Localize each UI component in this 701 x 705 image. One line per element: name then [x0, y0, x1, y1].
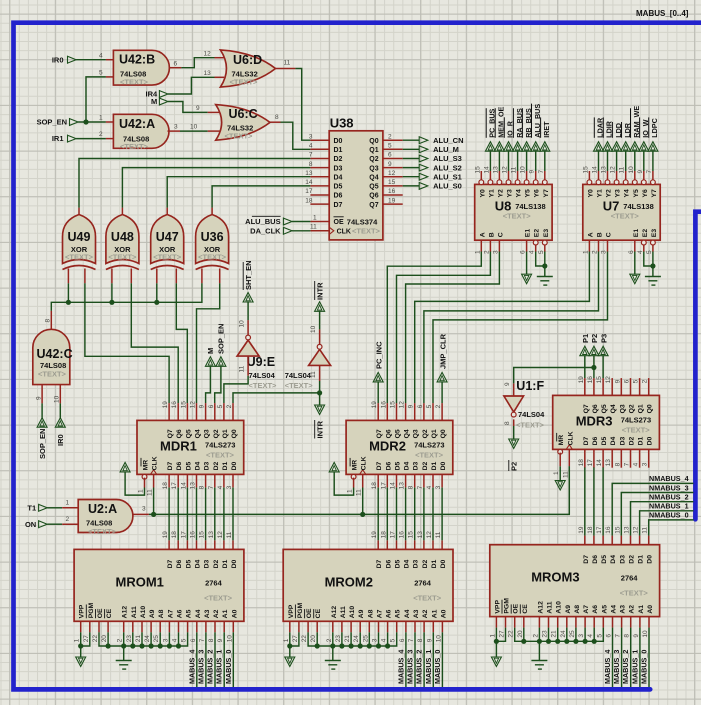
- pin D6 MDR2: [386, 474, 388, 487]
- wire: [223, 488, 225, 541]
- svg-text:MABUS_2: MABUS_2: [621, 650, 630, 684]
- pin CE MROM3: [523, 617, 525, 628]
- terminal IR0: [68, 56, 77, 64]
- terminal T1: [39, 504, 48, 512]
- svg-text:18: 18: [162, 482, 169, 490]
- pin Y1 U8: [488, 180, 493, 185]
- wire: [67, 283, 69, 302]
- svg-text:15: 15: [596, 376, 603, 384]
- wire ground rail MROM3: [515, 628, 604, 642]
- pin A6 MROM2: [387, 621, 389, 632]
- pin 11 output U6:D: [276, 68, 296, 70]
- svg-text:A3: A3: [204, 609, 211, 618]
- wire: [76, 138, 106, 140]
- svg-text:Q6: Q6: [385, 429, 392, 438]
- svg-text:MR: MR: [352, 460, 359, 471]
- svg-text:NMABUS_1: NMABUS_1: [649, 502, 689, 511]
- junction: [121, 643, 126, 648]
- svg-text:D5: D5: [601, 436, 608, 445]
- junction: [130, 643, 135, 648]
- svg-text:Q5: Q5: [369, 184, 378, 191]
- svg-text:13: 13: [399, 482, 406, 490]
- junction: [564, 639, 569, 644]
- svg-text:19: 19: [371, 531, 378, 539]
- svg-text:D6: D6: [176, 461, 183, 470]
- svg-text:<TEXT>: <TEXT>: [230, 78, 259, 87]
- pin A6 MROM1: [178, 621, 180, 632]
- pin A2 MROM3: [630, 617, 632, 628]
- wire NMABUS_4: [612, 483, 693, 535]
- pin MR MDR3: [558, 449, 563, 454]
- svg-text:7: 7: [417, 485, 424, 489]
- svg-text:15: 15: [390, 401, 397, 409]
- terminal SHT_EN: [243, 293, 253, 303]
- wire MABUS_1: [432, 632, 434, 687]
- pin D0 MDR1: [232, 474, 234, 487]
- pin Y3 U7: [614, 180, 619, 185]
- svg-text:6: 6: [520, 250, 527, 254]
- output pin U48: [121, 208, 123, 215]
- svg-text:9: 9: [529, 170, 536, 174]
- svg-text:3: 3: [142, 506, 146, 513]
- svg-text:A12: A12: [122, 606, 129, 619]
- svg-text:4: 4: [529, 250, 536, 254]
- wire ground rail MROM1: [99, 632, 188, 646]
- svg-text:6: 6: [399, 638, 406, 642]
- svg-text:13: 13: [417, 531, 424, 539]
- pin 10 output U9:F: [319, 329, 321, 344]
- svg-text:D4: D4: [404, 461, 411, 470]
- junction: [591, 365, 596, 370]
- pin PGM MROM1: [89, 621, 91, 632]
- pin D7 MDR3: [584, 449, 586, 467]
- register MDR1 74LS273: [137, 420, 244, 474]
- pin 5 U42:B: [106, 76, 114, 78]
- pin D5 U38: [310, 185, 329, 187]
- svg-text:A11: A11: [547, 601, 554, 613]
- wire MABUS_4: [612, 628, 614, 687]
- junction: [106, 643, 111, 648]
- svg-text:NMABUS_0: NMABUS_0: [649, 511, 689, 520]
- svg-text:D4: D4: [195, 559, 202, 568]
- wire: [386, 488, 388, 541]
- wire: [232, 488, 234, 541]
- svg-text:INTR: INTR: [315, 282, 324, 300]
- svg-text:7: 7: [624, 462, 631, 466]
- svg-text:6: 6: [606, 634, 613, 638]
- svg-text:<TEXT>: <TEXT>: [88, 527, 117, 536]
- svg-text:9: 9: [196, 105, 200, 112]
- svg-text:A8: A8: [574, 605, 581, 614]
- wire Y2 U7: [607, 151, 609, 171]
- pin D6 MDR1: [177, 474, 179, 487]
- svg-text:A12: A12: [331, 606, 338, 619]
- svg-text:7: 7: [646, 170, 653, 174]
- pin D7 MDR2: [377, 474, 379, 487]
- svg-text:D5: D5: [334, 184, 343, 191]
- junction: [83, 119, 88, 124]
- svg-text:18: 18: [171, 531, 178, 539]
- svg-text:Y0: Y0: [587, 189, 594, 198]
- svg-text:11: 11: [562, 471, 569, 478]
- pin A10 MROM1: [141, 621, 143, 632]
- svg-text:11: 11: [239, 365, 246, 372]
- svg-text:SOP_EN: SOP_EN: [217, 324, 226, 354]
- pin D5 MDR2: [396, 474, 398, 487]
- svg-text:A0: A0: [231, 609, 238, 618]
- svg-text:3: 3: [372, 638, 379, 642]
- svg-text:D0: D0: [231, 461, 238, 470]
- svg-text:1: 1: [582, 250, 589, 254]
- pin D2 MDR2: [423, 474, 425, 487]
- svg-text:D7: D7: [167, 559, 174, 568]
- pin11 CLK MDR1: [153, 474, 155, 487]
- pin Q5 MDR1: [186, 403, 188, 420]
- pin1 MR MDR1: [144, 478, 146, 488]
- svg-text:15: 15: [614, 526, 621, 534]
- svg-text:U49: U49: [68, 230, 91, 244]
- pin CE MROM1: [107, 621, 109, 632]
- svg-text:3: 3: [435, 485, 442, 489]
- svg-text:23: 23: [126, 635, 133, 643]
- pin 6 output U42:B: [169, 67, 182, 69]
- svg-text:6: 6: [388, 152, 392, 159]
- junction: [537, 639, 542, 644]
- pin MR MDR1: [142, 474, 147, 479]
- pin Y3 U8: [506, 180, 511, 185]
- pin Y7 U8: [542, 180, 547, 185]
- svg-text:Y6: Y6: [534, 189, 541, 198]
- wire U7 C to MDR2 Q1: [433, 252, 608, 404]
- pin Q7 MDR2: [377, 403, 379, 420]
- svg-text:A9: A9: [358, 609, 365, 618]
- pin 9 input U1:F: [513, 383, 515, 396]
- pin Q7 U38: [383, 203, 403, 205]
- svg-text:A6: A6: [386, 609, 393, 618]
- svg-text:IR0: IR0: [52, 55, 64, 64]
- svg-text:5: 5: [596, 634, 603, 638]
- svg-text:MABUS_0: MABUS_0: [433, 650, 442, 684]
- pin D2 MROM2: [423, 540, 425, 549]
- svg-text:18: 18: [371, 482, 378, 490]
- pin A4 MROM1: [196, 621, 198, 632]
- svg-text:D1: D1: [222, 461, 229, 470]
- wire MR MDR2 to terminal: [334, 472, 353, 495]
- svg-text:1: 1: [283, 638, 290, 642]
- pin1 MR MDR3: [559, 453, 561, 467]
- svg-text:A7: A7: [167, 609, 174, 618]
- junction: [109, 300, 114, 305]
- wire: [159, 632, 161, 646]
- terminal RB_BUS: [522, 142, 532, 152]
- svg-text:IR1: IR1: [52, 134, 64, 143]
- svg-text:D3: D3: [334, 165, 343, 172]
- eprom MROM2 2764: [283, 549, 453, 621]
- wire: [168, 488, 170, 541]
- svg-text:15: 15: [582, 166, 589, 174]
- svg-text:14: 14: [180, 482, 187, 490]
- pin 10 U42:C: [59, 385, 61, 404]
- svg-text:MABUS_4: MABUS_4: [396, 650, 405, 684]
- svg-text:D1: D1: [431, 559, 438, 568]
- svg-text:A12: A12: [537, 601, 544, 614]
- svg-text:9: 9: [217, 638, 224, 642]
- svg-text:13: 13: [305, 170, 313, 177]
- junction: [139, 643, 144, 648]
- svg-text:A9: A9: [565, 605, 572, 614]
- wire: [196, 488, 198, 541]
- svg-text:3: 3: [162, 638, 169, 642]
- pin A U8: [480, 240, 482, 251]
- pin Q4 MDR1: [196, 403, 198, 420]
- junction: [358, 643, 363, 648]
- svg-text:NMABUS_3: NMABUS_3: [649, 483, 689, 492]
- svg-text:A5: A5: [186, 609, 193, 618]
- svg-text:MABUS_4: MABUS_4: [187, 650, 196, 684]
- svg-text:14: 14: [592, 166, 599, 174]
- pin Q0 MDR2: [441, 403, 443, 420]
- svg-text:D2: D2: [213, 461, 220, 470]
- svg-text:11: 11: [284, 60, 291, 67]
- pin Q1 U38: [383, 148, 403, 150]
- pin D3 MDR1: [205, 474, 207, 487]
- wire: [332, 632, 334, 646]
- svg-text:D6: D6: [592, 436, 599, 445]
- input pins U47: [156, 269, 158, 284]
- svg-text:Q7: Q7: [167, 429, 174, 438]
- svg-text:ALU_CN: ALU_CN: [433, 136, 463, 145]
- svg-text:D1: D1: [431, 461, 438, 470]
- svg-text:D7: D7: [376, 461, 383, 470]
- pin A7 MROM2: [378, 621, 380, 632]
- svg-text:A10: A10: [556, 601, 563, 614]
- svg-text:11: 11: [356, 489, 363, 496]
- pin D2 MDR3: [630, 449, 632, 467]
- wire: [593, 467, 595, 535]
- svg-text:CLK: CLK: [152, 456, 159, 470]
- svg-text:U6:C: U6:C: [229, 107, 258, 121]
- eprom MROM3 2764: [490, 545, 660, 617]
- svg-text:4: 4: [99, 53, 103, 60]
- ground MROM3: [538, 641, 540, 660]
- svg-text:A8: A8: [367, 609, 374, 618]
- terminal LDD: [612, 142, 622, 152]
- wire Y1 U7: [598, 151, 600, 171]
- svg-text:12: 12: [204, 50, 212, 57]
- wire: [292, 221, 310, 223]
- svg-text:<TEXT>: <TEXT>: [622, 425, 651, 434]
- svg-text:D6: D6: [385, 461, 392, 470]
- svg-text:Q5: Q5: [601, 404, 608, 413]
- svg-text:19: 19: [578, 376, 585, 384]
- terminal IO_W: [639, 142, 649, 152]
- svg-text:Y5: Y5: [525, 189, 532, 198]
- svg-text:A2: A2: [629, 605, 636, 614]
- pin D3 MDR3: [620, 449, 622, 467]
- svg-text:E2: E2: [642, 229, 649, 238]
- pin CLK MDR3: [566, 445, 572, 450]
- pin D1 MROM2: [432, 540, 434, 549]
- svg-text:PC_INC: PC_INC: [375, 341, 384, 369]
- svg-text:MABUS_1: MABUS_1: [215, 650, 224, 684]
- svg-text:1: 1: [74, 638, 81, 642]
- terminal ALU_M: [403, 148, 420, 150]
- svg-text:MABUS_4: MABUS_4: [603, 650, 612, 684]
- svg-text:A8: A8: [158, 609, 165, 618]
- wire Y1 U8: [489, 151, 491, 171]
- svg-text:5: 5: [538, 250, 545, 254]
- pin 2 U42:A: [106, 138, 114, 140]
- svg-text:D6: D6: [334, 193, 343, 200]
- svg-text:24: 24: [560, 630, 567, 638]
- svg-text:74LS04: 74LS04: [285, 371, 312, 380]
- terminal DA_CLK: [283, 227, 292, 235]
- svg-text:Q4: Q4: [369, 174, 378, 181]
- svg-text:7: 7: [615, 634, 622, 638]
- pin MR MDR2: [351, 474, 356, 479]
- latch U38 74LS374: [329, 131, 383, 240]
- svg-text:7: 7: [199, 638, 206, 642]
- svg-text:15: 15: [180, 401, 187, 409]
- wire: [432, 488, 434, 541]
- terminal JMP_CLR: [437, 372, 447, 382]
- svg-text:<TEXT>: <TEXT>: [285, 381, 314, 390]
- wire: [538, 628, 540, 642]
- register MDR3 74LS273: [553, 395, 660, 449]
- pin D1 MDR2: [432, 474, 434, 487]
- pin D2 MROM3: [630, 536, 632, 545]
- wire NMABUS_2: [631, 502, 694, 536]
- svg-text:<TEXT>: <TEXT>: [120, 142, 149, 151]
- pin D1 MDR1: [223, 474, 225, 487]
- svg-text:A11: A11: [131, 606, 138, 618]
- svg-text:Y7: Y7: [651, 189, 658, 198]
- terminal (MR MDR3): [555, 481, 565, 491]
- svg-text:<TEXT>: <TEXT>: [620, 589, 649, 598]
- svg-text:<TEXT>: <TEXT>: [415, 450, 444, 459]
- pin Q4 U38: [383, 176, 403, 178]
- svg-text:<TEXT>: <TEXT>: [198, 253, 227, 262]
- svg-text:Y2: Y2: [606, 189, 613, 198]
- junction: [546, 639, 551, 644]
- svg-text:A3: A3: [413, 609, 420, 618]
- svg-text:NMABUS_4: NMABUS_4: [649, 474, 689, 483]
- wire U49 right input from MDR1 Q7: [85, 283, 169, 403]
- svg-text:3: 3: [578, 634, 585, 638]
- terminal P1: [580, 346, 590, 356]
- svg-text:Q4: Q4: [195, 429, 202, 438]
- svg-text:5: 5: [388, 143, 392, 150]
- pin Q0 MDR3: [648, 378, 650, 395]
- pin D1 MDR3: [639, 449, 641, 467]
- wire CLK MDR1 tap: [153, 488, 155, 515]
- pin Q5 MDR3: [602, 378, 604, 395]
- wire: [584, 467, 586, 535]
- svg-text:Q2: Q2: [213, 429, 220, 438]
- pin A9 MROM1: [150, 621, 152, 632]
- wire MR MDR1 to terminal: [125, 472, 144, 495]
- svg-text:U48: U48: [111, 230, 134, 244]
- svg-text:D3: D3: [619, 555, 626, 564]
- svg-text:<TEXT>: <TEXT>: [108, 253, 137, 262]
- wire CLK MDR2 tap: [362, 488, 364, 515]
- wire: [575, 628, 577, 642]
- svg-text:3: 3: [601, 250, 608, 254]
- wire: [186, 488, 188, 541]
- svg-text:74LS273: 74LS273: [205, 440, 235, 449]
- power terminal E1 U8: [526, 252, 528, 275]
- wire to P2-bar terminal: [513, 426, 515, 439]
- svg-text:OE: OE: [334, 219, 344, 226]
- wire: [141, 632, 143, 646]
- svg-text:9: 9: [426, 638, 433, 642]
- pin A5 MROM3: [602, 617, 604, 628]
- wire: [387, 632, 389, 646]
- terminal MEM_OE: [494, 142, 504, 152]
- svg-text:15: 15: [474, 166, 481, 174]
- svg-text:6: 6: [190, 638, 197, 642]
- wire U48 right input from MDR1 Q6: [131, 283, 178, 403]
- pin D4 MROM1: [196, 540, 198, 549]
- svg-text:10: 10: [54, 395, 61, 403]
- pin 12 U6:D: [215, 57, 225, 59]
- pin A10 MROM3: [557, 617, 559, 628]
- wire M to U6:C pin9: [168, 102, 208, 113]
- pin11 CLK MDR3: [568, 449, 570, 466]
- pin 13 U6:D: [215, 76, 225, 78]
- svg-text:Y3: Y3: [507, 189, 514, 198]
- junction: [154, 300, 159, 305]
- svg-text:8: 8: [199, 485, 206, 489]
- wire: [593, 628, 595, 642]
- svg-text:A5: A5: [395, 609, 402, 618]
- wire P1 to MDR3 Q7: [584, 356, 586, 378]
- terminal ALU_CN: [403, 139, 420, 141]
- terminal IR1: [68, 135, 77, 143]
- svg-text:Q3: Q3: [619, 404, 626, 413]
- wire PC_INC to MDR2 Q7: [377, 382, 379, 403]
- svg-text:D0: D0: [334, 138, 343, 145]
- terminal ALU_S1: [403, 176, 420, 178]
- svg-text:D2: D2: [629, 555, 636, 564]
- svg-text:A7: A7: [583, 605, 590, 614]
- svg-text:7: 7: [538, 170, 545, 174]
- and-gate U42:C: [33, 329, 70, 384]
- junction: [573, 639, 578, 644]
- junction: [376, 643, 381, 648]
- svg-text:D5: D5: [185, 461, 192, 470]
- pin Q5 MDR2: [396, 403, 398, 420]
- pin A12 MROM1: [123, 621, 125, 632]
- wire U8 C to MDR2 Q4: [406, 252, 500, 404]
- xor-gate U36: [196, 215, 229, 264]
- svg-text:10: 10: [190, 124, 198, 131]
- svg-text:19: 19: [162, 401, 169, 409]
- xor-gate U48: [106, 215, 139, 264]
- pin Q3 MDR3: [620, 378, 622, 395]
- pin A8 MROM2: [368, 621, 370, 632]
- svg-text:MABUS_0: MABUS_0: [640, 650, 649, 684]
- svg-text:A: A: [587, 232, 594, 237]
- svg-text:D5: D5: [395, 559, 402, 568]
- svg-text:19: 19: [388, 197, 396, 204]
- pin A12 MROM3: [538, 617, 540, 628]
- svg-text:D4: D4: [404, 559, 411, 568]
- svg-text:27: 27: [292, 635, 299, 643]
- svg-text:A0: A0: [440, 609, 447, 618]
- svg-text:4: 4: [217, 485, 224, 489]
- wire NMABUS_0: [649, 520, 694, 536]
